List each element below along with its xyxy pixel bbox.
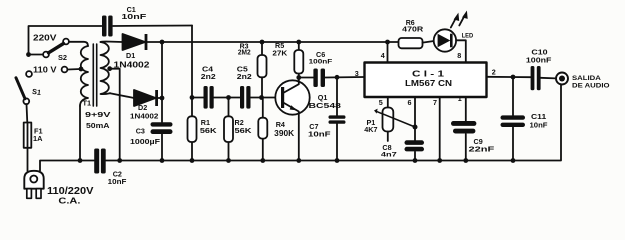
- svg-text:22nF: 22nF: [469, 145, 496, 154]
- wire D1 cathode to +V rail: [147, 41, 397, 43]
- transformer T1 secondary winding: [101, 42, 111, 94]
- capacitor C11: [501, 115, 526, 127]
- svg-text:S1: S1: [32, 87, 42, 97]
- svg-text:1000µF: 1000µF: [130, 137, 160, 146]
- wire pin 1 down through C9 to ground: [465, 97, 467, 161]
- node pin 4 rail junction: [385, 40, 390, 45]
- svg-text:D1: D1: [126, 51, 135, 60]
- svg-text:50mA: 50mA: [86, 121, 110, 130]
- wire plug right prong to bottom rail: [40, 161, 94, 171]
- node C7 ground: [335, 158, 340, 163]
- node C4/R1 input junction: [190, 95, 195, 100]
- svg-text:2M2: 2M2: [238, 50, 251, 57]
- wire C11 branch: [512, 77, 514, 161]
- svg-text:10nF: 10nF: [530, 121, 549, 130]
- wire secondary top to D1: [101, 41, 123, 44]
- node R3 top: [260, 40, 265, 45]
- svg-text:1: 1: [458, 94, 462, 103]
- capacitor C8: [405, 140, 425, 151]
- svg-text:4K7: 4K7: [364, 125, 377, 134]
- svg-text:LED: LED: [462, 32, 474, 39]
- diode D1: [123, 34, 148, 50]
- capacitor C5: [240, 86, 251, 109]
- svg-text:10nF: 10nF: [121, 12, 147, 21]
- LED emission arrows: [451, 11, 468, 28]
- wire bottom ground rail: [106, 85, 561, 161]
- node C3 ground: [160, 158, 165, 163]
- wire secondary bottom to D2: [110, 93, 134, 98]
- resistor R2: [224, 98, 233, 161]
- svg-text:7: 7: [433, 98, 437, 107]
- wire C6 to IC pin 3: [325, 76, 365, 79]
- capacitor C2: [94, 149, 106, 174]
- svg-text:C3: C3: [136, 127, 145, 136]
- wire S1 to fuse: [26, 104, 29, 122]
- wire fuse to plug: [27, 148, 29, 171]
- node Q1 collector junction: [296, 75, 301, 80]
- svg-text:1N4002: 1N4002: [114, 61, 151, 70]
- wire rectifier output vertical: [161, 42, 163, 122]
- resistor R5: [294, 42, 303, 78]
- svg-text:56K: 56K: [235, 126, 253, 135]
- capacitor C1: [102, 16, 113, 37]
- svg-text:10nF: 10nF: [108, 177, 127, 186]
- node primary bottom junction: [78, 158, 83, 163]
- wire pin 4 supply: [387, 42, 389, 63]
- wire S2 220V terminal to transformer primary top: [69, 42, 88, 46]
- transformer T1 primary winding: [80, 46, 88, 106]
- node S2 common junction: [26, 52, 31, 57]
- node D2 output: [160, 96, 165, 101]
- resistor R3: [258, 42, 267, 98]
- LED: [434, 29, 456, 51]
- svg-text:4n7: 4n7: [381, 152, 397, 159]
- svg-text:5: 5: [379, 98, 383, 107]
- wire collector line to C6: [299, 77, 313, 79]
- svg-text:8: 8: [457, 51, 461, 60]
- capacitor C3: [151, 122, 173, 134]
- wire S2 common to left rail: [29, 54, 44, 56]
- wire R6 to LED: [423, 41, 438, 43]
- svg-text:9+9V: 9+9V: [85, 110, 112, 119]
- node secondary centre tap: [107, 66, 112, 71]
- svg-text:3: 3: [355, 69, 359, 78]
- svg-text:100nF: 100nF: [309, 59, 333, 66]
- node R4 ground: [260, 158, 265, 163]
- capacitor C9: [451, 121, 476, 134]
- node Q1 emitter ground: [296, 158, 301, 163]
- svg-text:10nF: 10nF: [308, 129, 331, 138]
- svg-text:T1: T1: [83, 99, 92, 108]
- wire pin 6 down through C8 to ground: [414, 97, 416, 161]
- svg-text:100nF: 100nF: [526, 56, 552, 65]
- fuse F1: [24, 123, 32, 148]
- svg-text:1N4002: 1N4002: [130, 112, 158, 121]
- resistor R1: [188, 98, 197, 161]
- wire primary bottom to ground rail: [79, 106, 81, 161]
- svg-text:27K: 27K: [272, 49, 287, 58]
- diode D2: [134, 90, 158, 106]
- svg-text:220V: 220V: [33, 34, 58, 43]
- wire C3 to ground rail: [161, 134, 163, 161]
- AC plug: [24, 171, 43, 199]
- wire top rail from left corner through C1 to input drop: [29, 26, 193, 57]
- op-amp U1 tone decoder CI-1 LM567: [365, 63, 487, 98]
- svg-text:4: 4: [381, 51, 385, 60]
- svg-text:2n2: 2n2: [237, 72, 252, 81]
- node C9 ground: [463, 158, 468, 163]
- wire LED cathode to pin 8: [456, 40, 466, 62]
- svg-text:R4: R4: [276, 120, 285, 129]
- wire pin 5 to P1: [387, 97, 389, 108]
- node C8 ground: [413, 158, 418, 163]
- svg-text:470R: 470R: [402, 26, 423, 33]
- wire D2 cathode to +V node: [158, 97, 162, 99]
- svg-text:6: 6: [408, 98, 412, 107]
- node C7 junction: [335, 75, 340, 80]
- wire C4 to C5: [214, 97, 240, 99]
- svg-text:S2: S2: [58, 53, 67, 62]
- svg-text:C.A.: C.A.: [58, 196, 80, 206]
- node Q1 base bias junction: [259, 95, 264, 100]
- wire C10 to output jack: [541, 77, 556, 80]
- capacitor C7: [329, 77, 346, 160]
- transformer T1 core: [93, 44, 96, 106]
- svg-text:110 V: 110 V: [33, 66, 57, 75]
- transistor Q1: [275, 78, 309, 161]
- svg-text:56K: 56K: [200, 126, 218, 135]
- resistor R4: [258, 98, 267, 161]
- capacitor C10: [531, 66, 541, 90]
- svg-text:SALIDA: SALIDA: [572, 75, 601, 82]
- potentiometer P1: [374, 108, 415, 142]
- node P1 wiper on pin 6 wire: [413, 125, 418, 130]
- node R2 ground: [226, 158, 231, 163]
- svg-text:BC548: BC548: [309, 101, 341, 110]
- svg-text:2n2: 2n2: [201, 72, 216, 81]
- svg-text:DE AUDIO: DE AUDIO: [572, 83, 610, 90]
- node C11 ground: [511, 158, 516, 163]
- svg-text:2: 2: [492, 68, 496, 77]
- svg-text:LM567 CN: LM567 CN: [405, 78, 452, 88]
- switch S1: [16, 71, 32, 104]
- wire S2 110V terminal to primary tap: [68, 68, 81, 71]
- switch S2: [43, 39, 69, 73]
- wire pin 2 output line: [487, 76, 531, 78]
- wire pin 7 to ground: [439, 97, 441, 161]
- node centre tap at rail: [117, 158, 122, 163]
- wire C5 to Q1 base: [251, 97, 282, 99]
- node D1 output: [160, 40, 165, 45]
- node C11 junction: [511, 75, 516, 80]
- svg-text:1A: 1A: [33, 134, 43, 143]
- output jack SALIDA DE AUDIO: [556, 73, 568, 85]
- svg-text:390K: 390K: [274, 129, 294, 138]
- wire centre tap to ground rail: [110, 69, 120, 161]
- node R2 top junction: [226, 95, 231, 100]
- resistor R6: [399, 38, 423, 48]
- wire input drop from C1 rail down to C4/R1 node: [191, 26, 193, 98]
- node pin 7 ground: [437, 158, 442, 163]
- node primary tap: [79, 67, 84, 72]
- capacitor C4: [204, 86, 214, 109]
- node R1 ground: [190, 158, 195, 163]
- capacitor C6: [313, 69, 325, 88]
- wire input node to C4: [192, 97, 203, 99]
- node R5 top: [296, 40, 301, 45]
